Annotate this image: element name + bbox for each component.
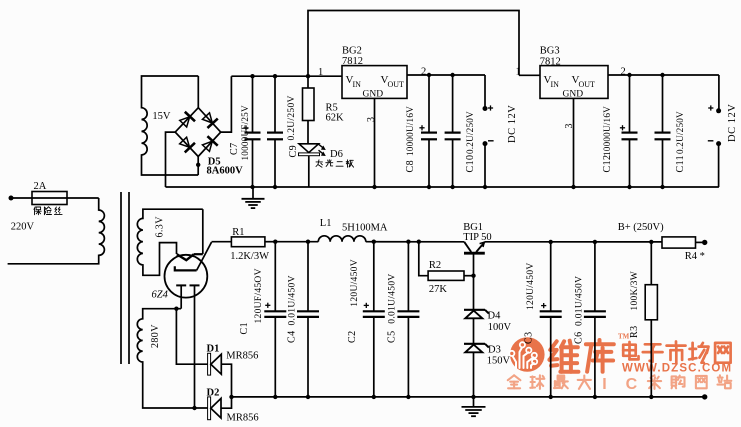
tube 6Z4 envelope [165,255,208,298]
bottom bus junction dot x=473.5 [471,395,475,399]
bottom bus junction dot x=594.9 [593,395,597,399]
D3 to ground wire [473,352,475,397]
svg-text:5H100MA: 5H100MA [342,223,388,234]
bridge diode top-left [178,112,195,129]
svg-text:C2: C2 [347,331,358,343]
svg-text:IN: IN [551,80,560,89]
svg-text:280V: 280V [150,324,161,348]
top bypass wire to BG3 [308,11,519,77]
junction dot C4 top [306,240,310,244]
svg-text:7812: 7812 [540,57,561,68]
svg-text:R1: R1 [232,227,244,238]
svg-text:0.2U/250V: 0.2U/250V [465,111,475,154]
svg-text:BG2: BG2 [342,46,362,57]
svg-text:3: 3 [564,123,575,128]
svg-text:D4: D4 [488,311,502,322]
junction dot R2/base [471,274,475,278]
svg-text:BG3: BG3 [540,46,560,57]
bridge rectifier D5 top lead [197,76,199,108]
wire to D1 [176,309,207,365]
svg-text:0.01U/450V: 0.01U/450V [575,276,585,326]
svg-text:R3: R3 [629,326,640,338]
svg-text:TIP 50: TIP 50 [463,232,492,243]
svg-text:C9: C9 [288,145,299,157]
svg-text:B+ (250V): B+ (250V) [618,222,664,233]
svg-text:OUT: OUT [579,80,596,89]
junction dot C7 top [250,74,254,78]
svg-text:MR856: MR856 [227,413,259,424]
junction dot C5 top [406,240,410,244]
zener D3 [464,343,485,345]
main B+ rail left [275,241,318,243]
svg-text:OUT: OUT [388,80,405,89]
junction dot plate/280V [174,307,178,311]
tube plate right [190,284,200,286]
svg-text:0.2U/250V: 0.2U/250V [675,111,685,154]
bottom bus junction dot x=408.4 [406,395,410,399]
resistor R1 [212,241,232,243]
input terminal dot [9,196,14,201]
wire bridge plus to raw rail [221,76,232,132]
junction dot R5 top [306,74,310,78]
280V winding [137,309,207,408]
capacitor C2 [373,242,375,312]
watermark slogan 全球最大IC采购网站 [508,375,521,388]
capacitor C9 [274,76,276,132]
svg-text:150V: 150V [487,355,511,366]
junction dot C10 top [450,73,454,77]
bus junction dot x=374.5 [372,185,376,189]
junction dot C12 top [627,73,631,77]
D2 output wire [221,397,232,408]
svg-text:GND: GND [363,90,384,100]
junction dot C3 top [549,240,553,244]
junction dot R2 tap [417,240,421,244]
15V winding [142,76,199,175]
capacitor C7 [252,76,254,132]
svg-text:8A600V: 8A600V [207,166,244,177]
capacitor C5 [407,242,409,312]
bus junction dot x=429 [427,185,431,189]
diode D1 [208,353,211,375]
svg-text:3: 3 [366,117,377,122]
tube cathode [175,266,197,270]
junction dot D1D2 bus [229,395,233,399]
LED D6 arrows [319,144,324,148]
junction dot C9 top [273,74,277,78]
svg-text:100V: 100V [488,322,512,333]
svg-text:0.01U/450V: 0.01U/450V [288,275,298,325]
resistor R5 [307,76,309,88]
svg-text:C10: C10 [465,155,476,173]
watermark text 电子市场网 [623,342,638,359]
ground symbol top [252,187,254,199]
svg-text:C1: C1 [239,322,250,334]
svg-text:TM: TM [618,333,630,341]
svg-text:120U/450V: 120U/450V [350,259,360,307]
wire into BG3 Vin [519,74,540,76]
svg-text:WWW.DZSC.COM: WWW.DZSC.COM [622,363,732,375]
bridge diode bottom-right [201,136,218,153]
svg-text:C6: C6 [574,332,585,344]
bottom bus junction dot x=550.7 [549,395,553,399]
junction dot plate2/280V [192,406,196,410]
6.3V right lead [202,209,204,254]
bus junction dot x=485 [483,185,487,189]
DC 12V output 1 plus [484,75,486,109]
bottom bus end terminal dot [702,394,707,399]
ground symbol bottom [473,397,475,407]
wire input to fuse [11,197,99,199]
fuse 2A [32,192,67,205]
capacitor C4 [307,242,309,312]
svg-text:L1: L1 [320,218,332,229]
svg-text:C7: C7 [229,143,240,155]
BG1 base lead [473,253,475,310]
svg-text:GND: GND [563,90,584,100]
svg-text:I: I [602,376,606,393]
svg-text:120UF/45OV: 120UF/45OV [254,268,264,323]
capacitor C8 [428,75,430,133]
svg-text:62K: 62K [326,113,345,124]
bridge rectifier D5 diamond [175,108,221,157]
junction dot C1 top [273,240,277,244]
wire bridge minus to ground bus [166,132,176,187]
bridge diode top-right [201,111,218,128]
svg-text:DC 12V: DC 12V [727,104,738,142]
D1 output wire [221,364,231,397]
tube cathode lead [197,242,212,270]
regulator U BG2 box [342,66,407,99]
svg-text:10000UF/25V: 10000UF/25V [240,105,250,160]
D4-D3 wire [473,318,475,344]
capacitor C10 [452,75,454,133]
svg-text:15V: 15V [152,111,171,122]
transistor BG1 [464,252,485,255]
capacitor C6 [594,242,596,311]
svg-text:C4: C4 [287,331,298,343]
svg-text:C3: C3 [524,332,535,344]
junction dot R3 top [649,240,653,244]
watermark logo circle [509,337,544,372]
bridge diode bottom-left [178,136,195,153]
svg-text:R2: R2 [429,260,441,271]
svg-text:MR856: MR856 [226,351,258,362]
svg-text:D3: D3 [488,345,501,356]
svg-text:0.01U/450V: 0.01U/450V [388,273,398,323]
junction dot C2 top [372,240,376,244]
svg-text:C11: C11 [675,155,686,173]
LED D6 [299,144,319,153]
svg-text:C8: C8 [405,160,416,172]
zener D4 [464,309,485,311]
svg-text:0.2U/250V: 0.2U/250V [287,95,297,140]
junction dot bridge bottom [196,163,200,167]
DC 12V output 2 plus [718,75,720,111]
tube heater filament [177,254,194,260]
svg-text:C: C [626,376,638,393]
svg-text:220V: 220V [11,222,35,233]
bus junction dot x=573.5 [571,185,575,189]
capacitor C3 [550,242,552,311]
bus junction dot x=452.6 [450,185,454,189]
BG3 output rail [608,74,719,76]
main B+ rail mid [366,241,464,243]
resistor R2 branch [419,242,428,276]
junction dot C11 top [660,73,664,77]
svg-text:C12: C12 [602,155,613,173]
svg-text:10000U/16V: 10000U/16V [405,106,415,156]
svg-text:D1: D1 [207,344,220,355]
svg-text:100K/3W: 100K/3W [630,271,640,311]
primary winding 220V [8,198,105,264]
svg-text:IN: IN [353,80,362,89]
BG2 output rail [407,74,485,76]
capacitor C1 [274,242,276,312]
choke L1 [318,236,366,242]
label 发光二极 [316,160,322,167]
svg-text:1: 1 [516,67,521,78]
bottom bus junction dot x=308 [306,395,310,399]
tube plate left [176,284,186,286]
resistor R3 [650,242,652,285]
svg-text:120U/450V: 120U/450V [526,262,536,310]
bus junction dot x=275 [273,185,277,189]
bottom bus junction dot x=373.8 [372,395,376,399]
resistor R4 [662,237,696,248]
svg-text:1.2K/3W: 1.2K/3W [230,251,269,262]
capacitor C11 [662,75,664,133]
svg-text:27K: 27K [429,284,448,295]
svg-text:R4 *: R4 * [685,251,705,262]
top section ground bus [166,186,719,188]
junction dot C8 top [427,73,431,77]
svg-text:7812: 7812 [342,56,363,67]
bus junction dot x=662.5 [660,185,664,189]
label 保险丝 [34,207,41,215]
BG2 pin3 wire [374,98,376,187]
junction dot C6 top [593,240,597,244]
transformer core [120,192,122,364]
main B+ rail right of BG1 [485,241,662,243]
regulator BG3 box [540,66,608,99]
B+ terminal dot [702,240,707,245]
bottom bus junction dot x=275.3 [273,395,277,399]
bridge bottom lead [197,157,199,176]
6.3V winding [137,209,202,275]
svg-text:6Z4: 6Z4 [152,290,169,301]
BG3 pin3 wire [573,98,575,187]
capacitor C12 [629,75,631,133]
svg-text:C5: C5 [387,331,398,343]
svg-text:DC 12V: DC 12V [507,105,518,143]
DC 12V output 1 minus [483,141,488,146]
svg-text:2A: 2A [34,181,47,192]
bottom bus junction dot x=651.3 [649,395,653,399]
bottom ground bus [232,396,705,398]
svg-text:10000U/16V: 10000U/16V [602,106,612,156]
diode D2 [208,397,211,420]
svg-text:1: 1 [318,67,323,78]
svg-text:D6: D6 [330,149,343,160]
svg-text:D2: D2 [207,387,220,398]
DC 12V output 2 minus [716,141,721,146]
raw +15V rail [231,75,342,77]
bus junction dot x=252.5 [250,185,254,189]
svg-text:6.3V: 6.3V [155,216,166,238]
watermark text 维库 [550,341,579,372]
bus junction dot x=629.5 [627,185,631,189]
